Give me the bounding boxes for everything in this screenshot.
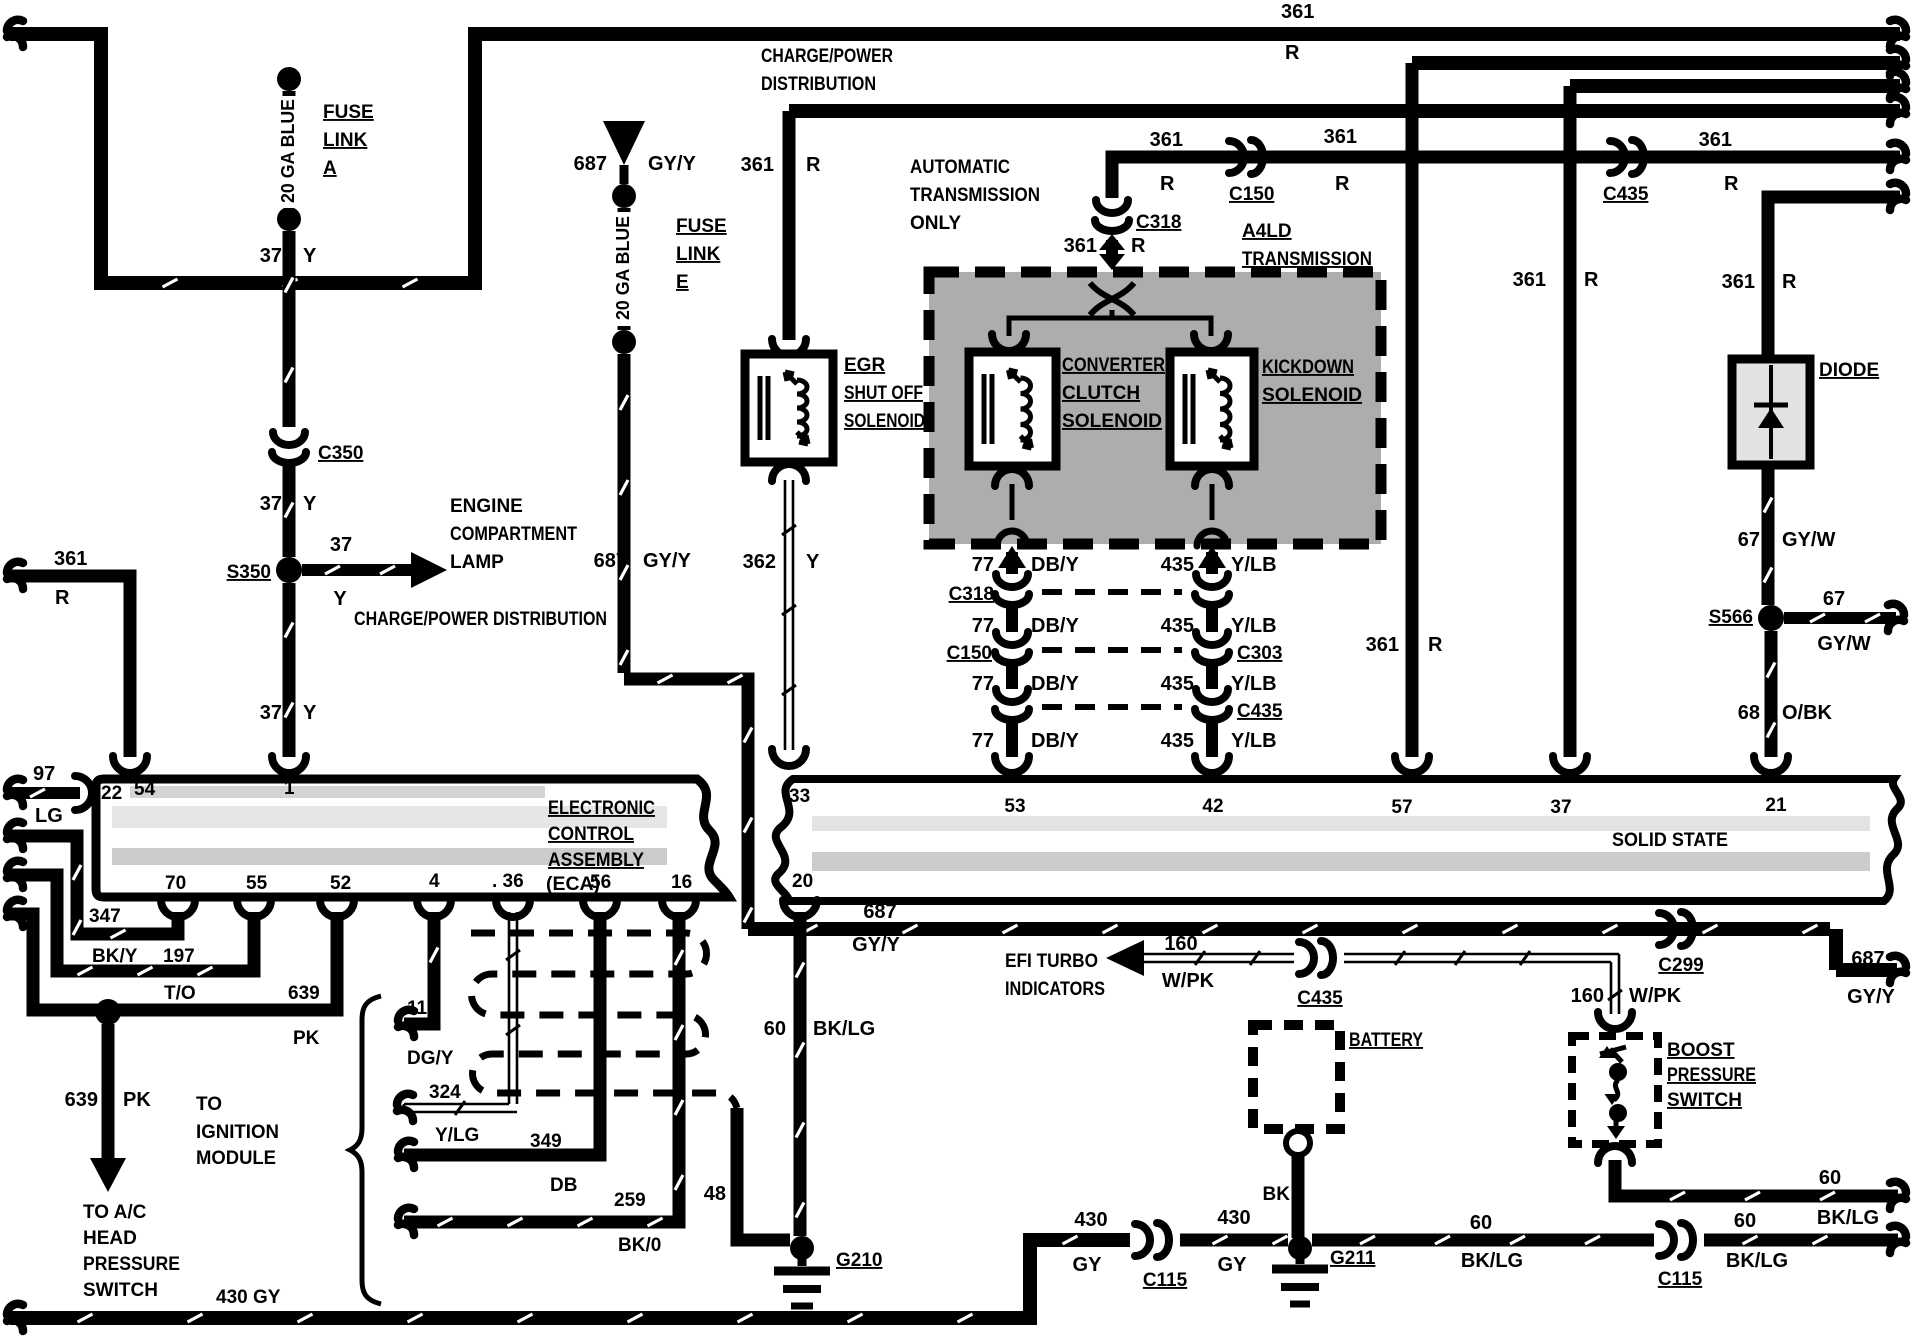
connector C318 (chain label) xyxy=(949,584,994,605)
svg-text:361: 361 xyxy=(1281,1,1314,23)
svg-text:G210: G210 xyxy=(836,1250,882,1271)
svg-text:55: 55 xyxy=(246,873,268,894)
svg-text:INDICATORS: INDICATORS xyxy=(1005,979,1105,1000)
svg-text:DB/Y: DB/Y xyxy=(1031,730,1079,752)
svg-text:KICKDOWN: KICKDOWN xyxy=(1262,357,1354,378)
wire 60 BK/LG G211 to C115 xyxy=(1312,1212,1654,1272)
label 361 top bus xyxy=(1281,1,1314,64)
svg-text:197: 197 xyxy=(163,946,195,967)
svg-text:R: R xyxy=(1335,173,1350,195)
svg-text:Y/LG: Y/LG xyxy=(435,1125,479,1146)
splice S350 xyxy=(227,557,302,583)
svg-text:Y/LB: Y/LB xyxy=(1231,730,1277,752)
wire 687 GY/Y bus below solid state xyxy=(748,901,1906,1008)
svg-text:DB/Y: DB/Y xyxy=(1031,615,1079,637)
label DIODE xyxy=(1819,360,1879,381)
svg-text:430: 430 xyxy=(1074,1209,1107,1231)
solenoid leads to A4LD case xyxy=(995,469,1229,546)
svg-text:CHARGE/POWER DISTRIBUTION: CHARGE/POWER DISTRIBUTION xyxy=(354,609,607,630)
label 687 GY/Y mid xyxy=(594,550,692,572)
svg-text:324: 324 xyxy=(429,1082,461,1103)
wire 349 DB from ECA pin 56 xyxy=(398,900,617,1196)
ECA pin 4 xyxy=(429,871,440,892)
wire 361 R to diode xyxy=(1722,183,1906,359)
converter clutch solenoid xyxy=(969,352,1056,466)
label AUTOMATIC TRANSMISSION ONLY xyxy=(910,157,1040,234)
svg-text:60: 60 xyxy=(1470,1212,1492,1234)
svg-text:687: 687 xyxy=(574,153,607,175)
svg-text:ASSEMBLY: ASSEMBLY xyxy=(548,850,644,871)
pin 37 xyxy=(1550,797,1571,818)
svg-text:R: R xyxy=(1285,42,1300,64)
svg-text:361: 361 xyxy=(1513,269,1546,291)
ground G210 xyxy=(774,1236,830,1306)
svg-text:PK: PK xyxy=(123,1089,151,1111)
svg-text:37: 37 xyxy=(260,493,282,515)
svg-text:16: 16 xyxy=(671,872,692,893)
svg-text:C150: C150 xyxy=(1229,184,1274,205)
svg-text:PRESSURE: PRESSURE xyxy=(1667,1065,1756,1086)
wire 639 PK to ECA pin 52 xyxy=(7,900,354,1049)
svg-text:ENGINE: ENGINE xyxy=(450,496,523,517)
svg-text:CONTROL: CONTROL xyxy=(548,824,634,845)
svg-text:362: 362 xyxy=(743,551,776,573)
splice S566 xyxy=(1709,605,1784,631)
label FUSE LINK E xyxy=(676,216,727,293)
svg-text:LG: LG xyxy=(35,805,63,827)
svg-text:160: 160 xyxy=(1571,985,1604,1007)
svg-text:EFI TURBO: EFI TURBO xyxy=(1005,951,1098,972)
wire 324 Y/LG from ECA pin 36 xyxy=(397,900,530,1146)
svg-text:GY/W: GY/W xyxy=(1817,633,1870,655)
svg-text:GY/Y: GY/Y xyxy=(643,550,691,572)
pin 21 xyxy=(1765,795,1787,816)
wire 430 GY bottom run xyxy=(7,1209,1130,1331)
ECA pin 1 xyxy=(284,778,295,799)
svg-text:DISTRIBUTION: DISTRIBUTION xyxy=(761,74,876,95)
svg-text:BK/LG: BK/LG xyxy=(1461,1250,1523,1272)
svg-text:COMPARTMENT: COMPARTMENT xyxy=(450,524,577,545)
svg-text:FUSE: FUSE xyxy=(676,216,727,237)
wire 361 R vertical to pin 57 xyxy=(1366,63,1443,773)
svg-text:68: 68 xyxy=(1738,702,1760,724)
boost pressure switch xyxy=(1572,1036,1658,1144)
svg-text:A4LD: A4LD xyxy=(1242,221,1292,242)
label 37 Y upper xyxy=(260,245,317,267)
wire 60 BK/LG from boost switch xyxy=(1598,1146,1906,1229)
svg-text:IGNITION: IGNITION xyxy=(196,1122,279,1143)
svg-text:430 GY: 430 GY xyxy=(216,1287,281,1308)
svg-text:SHUT OFF: SHUT OFF xyxy=(844,383,923,404)
wire 361 R to ECA pin 54 xyxy=(7,548,147,773)
svg-text:C115: C115 xyxy=(1143,1270,1188,1291)
svg-text:LINK: LINK xyxy=(676,244,721,265)
ECA pin 16 xyxy=(671,872,692,893)
svg-text:GY/Y: GY/Y xyxy=(852,934,900,956)
svg-text:ONLY: ONLY xyxy=(910,213,961,234)
fuse link E top (triangle terminal) xyxy=(574,121,697,208)
wire 259 BK/0 from ECA pin 16 xyxy=(398,900,696,1256)
wire 160 W/PK to boost pressure switch xyxy=(1344,951,1682,1029)
svg-text:G211: G211 xyxy=(1330,1248,1376,1269)
svg-text:160: 160 xyxy=(1164,933,1197,955)
svg-text:67: 67 xyxy=(1738,529,1760,551)
label G211 xyxy=(1330,1248,1376,1269)
svg-text:97: 97 xyxy=(33,763,55,785)
wire 67 GY/W branch right xyxy=(1784,588,1904,655)
svg-text:BK/0: BK/0 xyxy=(618,1235,661,1256)
svg-text:77: 77 xyxy=(972,730,994,752)
wire 361 R into A4LD transmission xyxy=(1064,234,1146,270)
svg-text:435: 435 xyxy=(1161,730,1194,752)
connector C350 xyxy=(272,432,363,464)
pin 53 xyxy=(1004,796,1025,817)
wire 37 Y between C350 and S350 xyxy=(260,466,317,557)
label FUSE LINK A xyxy=(323,102,374,179)
wire 361 R vertical to pin 37 xyxy=(1513,86,1599,773)
dashed link row 1 xyxy=(1042,589,1182,595)
svg-text:639: 639 xyxy=(65,1089,98,1111)
svg-text:BK: BK xyxy=(1263,1184,1291,1205)
svg-text:R: R xyxy=(1131,235,1146,257)
svg-text:SOLID STATE: SOLID STATE xyxy=(1612,830,1728,851)
svg-text:Y: Y xyxy=(333,588,347,610)
svg-text:52: 52 xyxy=(330,873,351,894)
svg-text:20 GA BLUE: 20 GA BLUE xyxy=(613,216,633,320)
svg-text:361: 361 xyxy=(741,154,774,176)
kickdown solenoid xyxy=(1170,352,1254,466)
svg-text:60: 60 xyxy=(764,1018,786,1040)
svg-text:E: E xyxy=(676,272,689,293)
wire 361 R to C318 (A4LD feed) xyxy=(1112,126,1906,198)
svg-text:56: 56 xyxy=(590,872,611,893)
svg-text:430: 430 xyxy=(1217,1207,1250,1229)
label EGR SHUT OFF SOLENOID xyxy=(844,355,925,432)
svg-text:A: A xyxy=(323,158,337,179)
svg-text:HEAD: HEAD xyxy=(83,1228,137,1249)
svg-text:37: 37 xyxy=(1550,797,1571,818)
svg-text:Y/LB: Y/LB xyxy=(1231,673,1277,695)
svg-text:PK: PK xyxy=(293,1028,320,1049)
ECA pin 55 xyxy=(246,873,268,894)
svg-text:33: 33 xyxy=(789,786,810,807)
label BOOST PRESSURE SWITCH xyxy=(1667,1040,1756,1111)
svg-text:CLUTCH: CLUTCH xyxy=(1062,383,1140,404)
svg-text:SOLENOID: SOLENOID xyxy=(1262,385,1362,406)
label A4LD TRANSMISSION xyxy=(1242,221,1372,270)
svg-text:SOLENOID: SOLENOID xyxy=(1062,411,1162,432)
svg-text:DB: DB xyxy=(550,1175,577,1196)
svg-text:37: 37 xyxy=(260,245,282,267)
svg-text:57: 57 xyxy=(1391,797,1412,818)
wire chain 77 DB/Y to pin 53 xyxy=(972,546,1080,773)
pin 20 xyxy=(792,871,813,892)
svg-text:LAMP: LAMP xyxy=(450,552,504,573)
svg-text:R: R xyxy=(1724,173,1739,195)
svg-text:T/O: T/O xyxy=(164,983,196,1004)
svg-text:60: 60 xyxy=(1734,1210,1756,1232)
svg-text:C299: C299 xyxy=(1658,955,1703,976)
svg-text:77: 77 xyxy=(972,673,994,695)
svg-text:48: 48 xyxy=(704,1183,726,1205)
svg-text:GY/W: GY/W xyxy=(1782,529,1835,551)
A4LD transmission box xyxy=(929,272,1381,544)
svg-text:GY: GY xyxy=(1218,1254,1248,1276)
svg-text:BK/LG: BK/LG xyxy=(813,1018,875,1040)
wire 361 top feed loop and top bus xyxy=(7,20,1906,287)
battery xyxy=(1253,1025,1340,1129)
wire 60 BK/LG solid state pin 20 to G210 xyxy=(764,900,875,1236)
wire 687 GY/Y elbow to bus xyxy=(624,675,752,929)
svg-text:BK/LG: BK/LG xyxy=(1817,1207,1879,1229)
svg-text:77: 77 xyxy=(972,554,994,576)
svg-text:37: 37 xyxy=(330,534,352,556)
label CHARGE/POWER DISTRIBUTION (lamp) xyxy=(354,609,607,630)
svg-text:BK/Y: BK/Y xyxy=(92,946,138,967)
svg-text:BOOST: BOOST xyxy=(1667,1040,1735,1061)
connector C435 (chain label) xyxy=(1237,701,1283,722)
ECA pin 52 xyxy=(330,873,351,894)
dashed link row 3 xyxy=(1042,704,1182,710)
svg-text:C435: C435 xyxy=(1297,988,1343,1009)
svg-text:77: 77 xyxy=(972,615,994,637)
svg-text:20 GA BLUE: 20 GA BLUE xyxy=(278,99,298,203)
connector C299 xyxy=(1658,912,1703,976)
svg-text:AUTOMATIC: AUTOMATIC xyxy=(910,157,1010,178)
svg-text:Y/LB: Y/LB xyxy=(1231,554,1277,576)
svg-text:CHARGE/POWER: CHARGE/POWER xyxy=(761,46,893,67)
svg-text:SWITCH: SWITCH xyxy=(1667,1090,1742,1111)
svg-text:TRANSMISSION: TRANSMISSION xyxy=(910,185,1040,206)
wire 160 W/PK to EFI turbo indicators xyxy=(1106,933,1294,992)
svg-text:11: 11 xyxy=(407,998,428,1019)
label CONVERTER CLUTCH SOLENOID xyxy=(1062,355,1165,432)
wire chain 435 Y/LB to pin 42 xyxy=(1161,546,1277,773)
svg-text:SWITCH: SWITCH xyxy=(83,1280,158,1301)
connector C435 (feed line) xyxy=(1603,140,1649,205)
wire 68 O/BK to solid state pin 21 xyxy=(1738,631,1833,773)
svg-text:687: 687 xyxy=(1851,948,1884,970)
wire 48 to G210 xyxy=(704,1108,790,1240)
svg-text:BATTERY: BATTERY xyxy=(1349,1030,1423,1051)
connector C115 (430 GY) xyxy=(1135,1223,1188,1291)
electronic control assembly (ECA) box xyxy=(96,779,729,897)
svg-text:R: R xyxy=(1584,269,1599,291)
svg-text:361: 361 xyxy=(1324,126,1357,148)
svg-text:R: R xyxy=(55,587,70,609)
wire 361 R to EGR solenoid xyxy=(741,111,821,356)
pin 57 xyxy=(1391,797,1412,818)
svg-text:22: 22 xyxy=(101,783,122,804)
connector C303 (chain label) xyxy=(1237,643,1282,664)
harness serpentine dashed boundary xyxy=(471,933,737,1108)
svg-text:639: 639 xyxy=(288,983,320,1004)
dashed link row 2 xyxy=(1042,647,1182,653)
harness brace xyxy=(350,996,381,1304)
svg-text:DB/Y: DB/Y xyxy=(1031,554,1079,576)
wire 430 GY to G211 xyxy=(1180,1207,1288,1276)
diode xyxy=(1732,359,1810,465)
svg-text:CONVERTER: CONVERTER xyxy=(1062,355,1165,376)
connector C435 (160 line) xyxy=(1297,941,1343,1009)
wire 361 R bus to pin 57 xyxy=(1412,49,1906,76)
svg-text:37: 37 xyxy=(260,702,282,724)
svg-text:347: 347 xyxy=(89,906,121,927)
svg-text:C435: C435 xyxy=(1603,184,1649,205)
svg-text:259: 259 xyxy=(614,1190,646,1211)
svg-text:GY/Y: GY/Y xyxy=(1847,986,1895,1008)
label KICKDOWN SOLENOID xyxy=(1262,357,1362,406)
svg-text:687: 687 xyxy=(594,550,627,572)
svg-text:C318: C318 xyxy=(949,584,994,605)
wire 97 LG to ECA pin 22 xyxy=(7,763,92,827)
wire BK battery to G211 xyxy=(1263,1131,1310,1238)
connector C150 (feed line) xyxy=(1229,140,1274,205)
svg-text:GY: GY xyxy=(1073,1254,1103,1276)
svg-text:Y/LB: Y/LB xyxy=(1231,615,1277,637)
label ELECTRONIC CONTROL ASSEMBLY (ECA) xyxy=(546,798,655,895)
ECA pin 36 xyxy=(492,871,524,892)
pin 42 xyxy=(1202,796,1223,817)
label TO A/C HEAD PRESSURE SWITCH xyxy=(83,1202,180,1301)
wire to solenoid coils inside A4LD xyxy=(992,318,1228,351)
wire 639 PK branch to A/C switch xyxy=(65,1024,152,1192)
svg-text:20: 20 xyxy=(792,871,813,892)
svg-text:42: 42 xyxy=(1202,796,1223,817)
svg-text:Y: Y xyxy=(303,493,317,515)
svg-text:R: R xyxy=(1160,173,1175,195)
wire 67 GY/W diode to S566 xyxy=(1738,465,1836,605)
ground G211 xyxy=(1272,1236,1328,1304)
svg-text:DIODE: DIODE xyxy=(1819,360,1879,381)
svg-text:70: 70 xyxy=(165,873,186,894)
solid state module box xyxy=(775,779,1901,901)
svg-text:S566: S566 xyxy=(1709,607,1753,628)
svg-text:C350: C350 xyxy=(318,443,363,464)
svg-text:BK/LG: BK/LG xyxy=(1726,1250,1788,1272)
svg-text:54: 54 xyxy=(134,779,156,800)
svg-text:. 36: . 36 xyxy=(492,871,524,892)
svg-text:TO: TO xyxy=(196,1094,222,1115)
svg-text:TO A/C: TO A/C xyxy=(83,1202,147,1223)
wire 11 DG/Y from ECA pin 4 xyxy=(398,900,454,1069)
label ENGINE COMPARTMENT LAMP xyxy=(450,496,577,573)
svg-text:435: 435 xyxy=(1161,673,1194,695)
label 20 GA BLUE (fuse link A) xyxy=(277,96,302,208)
svg-text:Y: Y xyxy=(303,702,317,724)
label CHARGE/POWER DISTRIBUTION (header) xyxy=(761,46,893,95)
wire 362 Y EGR to solid state pin 33 xyxy=(743,464,820,766)
svg-text:PRESSURE: PRESSURE xyxy=(83,1254,180,1275)
svg-text:C435: C435 xyxy=(1237,701,1283,722)
svg-text:Y: Y xyxy=(806,551,820,573)
svg-text:361: 361 xyxy=(1064,235,1097,257)
svg-text:Y: Y xyxy=(303,245,317,267)
label TO IGNITION MODULE xyxy=(196,1094,279,1169)
svg-text:C150: C150 xyxy=(947,643,992,664)
svg-text:DB/Y: DB/Y xyxy=(1031,673,1079,695)
splice inside A4LD xyxy=(1090,283,1134,318)
svg-text:361: 361 xyxy=(1150,129,1183,151)
svg-text:21: 21 xyxy=(1765,795,1787,816)
fuse link A wire upper (20 GA BLUE) xyxy=(277,67,301,427)
svg-text:67: 67 xyxy=(1823,588,1845,610)
svg-text:361: 361 xyxy=(1699,129,1732,151)
connector C115 (60 BK/LG) xyxy=(1658,1223,1703,1290)
label SOLID STATE xyxy=(1612,830,1728,851)
fuse link E wire (20 GA BLUE) xyxy=(612,208,636,673)
svg-text:TRANSMISSION: TRANSMISSION xyxy=(1242,249,1372,270)
svg-text:R: R xyxy=(1782,271,1797,293)
svg-text:DG/Y: DG/Y xyxy=(407,1048,454,1069)
svg-text:60: 60 xyxy=(1819,1167,1841,1189)
svg-text:361: 361 xyxy=(54,548,87,570)
ECA pin 22 xyxy=(101,783,122,804)
svg-text:53: 53 xyxy=(1004,796,1025,817)
svg-text:R: R xyxy=(1428,634,1443,656)
svg-text:435: 435 xyxy=(1161,615,1194,637)
svg-text:361: 361 xyxy=(1722,271,1755,293)
ECA pin 70 xyxy=(165,873,186,894)
wire 37 Y to ECA pin 1 xyxy=(260,583,317,773)
svg-text:SOLENOID: SOLENOID xyxy=(844,411,925,432)
wire 197 T/O to ECA pin 55 xyxy=(7,861,271,1004)
svg-text:LINK: LINK xyxy=(323,130,368,151)
label EFI TURBO INDICATORS xyxy=(1005,951,1105,1000)
pin 33 xyxy=(789,786,810,807)
svg-text:W/PK: W/PK xyxy=(1629,985,1682,1007)
svg-text:C115: C115 xyxy=(1658,1269,1703,1290)
ECA pin 54 xyxy=(134,779,156,800)
wire 361 R bus to pin 37 xyxy=(1570,72,1906,99)
svg-text:EGR: EGR xyxy=(844,355,885,376)
svg-text:R: R xyxy=(806,154,821,176)
connector C150 (chain label) xyxy=(947,643,992,664)
svg-text:O/BK: O/BK xyxy=(1782,702,1833,724)
svg-text:361: 361 xyxy=(1366,634,1399,656)
wire 37 Y branch to engine compartment lamp xyxy=(302,534,447,610)
svg-text:GY/Y: GY/Y xyxy=(648,153,696,175)
svg-text:C318: C318 xyxy=(1136,212,1181,233)
connector C318 (top) xyxy=(1095,200,1181,233)
wire 60 BK/LG to hook xyxy=(1704,1210,1906,1272)
svg-text:1: 1 xyxy=(284,778,295,799)
svg-text:ELECTRONIC: ELECTRONIC xyxy=(548,798,655,819)
svg-text:435: 435 xyxy=(1161,554,1194,576)
wire 347 BK/Y to ECA pin 70 xyxy=(7,822,195,967)
svg-text:MODULE: MODULE xyxy=(196,1148,276,1169)
svg-text:349: 349 xyxy=(530,1131,562,1152)
label BATTERY xyxy=(1349,1030,1423,1051)
label G210 xyxy=(836,1250,882,1271)
svg-text:S350: S350 xyxy=(227,562,271,583)
svg-text:C303: C303 xyxy=(1237,643,1282,664)
svg-text:FUSE: FUSE xyxy=(323,102,374,123)
svg-text:W/PK: W/PK xyxy=(1162,970,1215,992)
EGR shut off solenoid xyxy=(745,354,833,462)
wire 361 R bus to EGR solenoid xyxy=(789,97,1906,124)
label 20 GA BLUE (fuse link E) xyxy=(612,212,637,326)
svg-text:4: 4 xyxy=(429,871,440,892)
